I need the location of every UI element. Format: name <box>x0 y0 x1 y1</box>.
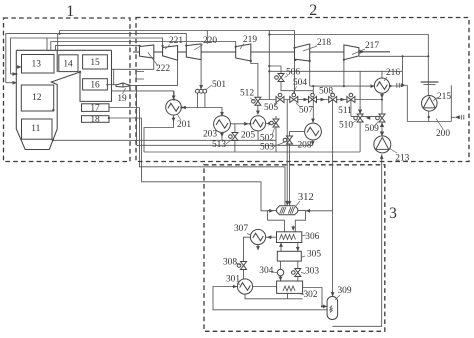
svg-text:222: 222 <box>156 64 170 74</box>
svg-text:308: 308 <box>223 258 237 268</box>
svg-text:203: 203 <box>203 130 217 140</box>
svg-text:309: 309 <box>337 286 351 296</box>
svg-text:12: 12 <box>32 93 42 103</box>
svg-text:11: 11 <box>31 124 40 134</box>
svg-text:512: 512 <box>240 89 254 99</box>
svg-text:509: 509 <box>365 124 379 134</box>
svg-text:16: 16 <box>90 81 100 91</box>
svg-text:13: 13 <box>32 60 42 70</box>
svg-text:17: 17 <box>90 104 100 114</box>
svg-text:303: 303 <box>305 267 319 277</box>
svg-text:14: 14 <box>63 60 73 70</box>
svg-text:205: 205 <box>241 130 255 140</box>
svg-text:506: 506 <box>286 68 300 78</box>
svg-text:304: 304 <box>259 266 273 276</box>
svg-text:18: 18 <box>90 115 100 125</box>
svg-text:218: 218 <box>317 38 331 48</box>
svg-text:220: 220 <box>203 36 217 46</box>
svg-text:511: 511 <box>338 106 352 116</box>
svg-text:507: 507 <box>299 106 313 116</box>
svg-text:302: 302 <box>303 290 317 300</box>
svg-text:503: 503 <box>260 143 274 153</box>
svg-text:307: 307 <box>234 224 248 234</box>
svg-text:3: 3 <box>389 205 397 222</box>
svg-text:217: 217 <box>365 41 379 51</box>
svg-text:510: 510 <box>339 121 353 131</box>
svg-text:219: 219 <box>243 35 257 45</box>
svg-text:213: 213 <box>395 153 409 163</box>
svg-text:501: 501 <box>212 80 226 90</box>
svg-text:215: 215 <box>437 92 451 102</box>
svg-text:1: 1 <box>66 3 74 20</box>
svg-text:2: 2 <box>309 2 317 19</box>
svg-text:221: 221 <box>169 36 183 46</box>
svg-text:19: 19 <box>117 94 127 104</box>
svg-text:15: 15 <box>90 58 100 68</box>
svg-text:504: 504 <box>293 78 307 88</box>
svg-text:216: 216 <box>386 68 400 78</box>
svg-text:305: 305 <box>307 250 321 260</box>
svg-text:312: 312 <box>298 192 314 203</box>
svg-text:508: 508 <box>319 87 333 97</box>
svg-text:201: 201 <box>177 120 191 130</box>
svg-text:301: 301 <box>226 275 240 285</box>
svg-text:513: 513 <box>212 140 226 150</box>
svg-text:306: 306 <box>305 232 319 242</box>
svg-text:200: 200 <box>436 129 450 139</box>
